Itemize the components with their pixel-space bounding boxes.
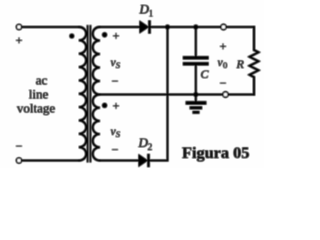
transformer T1 secondary winding (upper half vS) <box>93 27 100 95</box>
svg-text:line: line <box>29 87 49 102</box>
svg-text:C: C <box>201 67 210 81</box>
wire: D1 cathode to top-right corner <box>151 26 255 28</box>
terminal: bottom-left input <box>17 158 22 163</box>
svg-text:1: 1 <box>149 10 154 20</box>
wire: D2 cathode riser up to top rail <box>150 27 168 161</box>
junction node: capacitor joins top rail <box>194 25 199 30</box>
svg-text:−: − <box>112 74 119 88</box>
svg-text:voltage: voltage <box>17 101 55 116</box>
svg-text:+: + <box>113 99 120 113</box>
svg-text:+: + <box>220 39 227 53</box>
svg-text:R: R <box>236 57 245 71</box>
transformer phasing dot (primary) <box>70 34 75 39</box>
svg-text:S: S <box>116 60 121 70</box>
svg-text:−: − <box>112 143 119 157</box>
transformer phasing dot (secondary lower) <box>102 103 107 108</box>
junction node: D2 riser joins top rail <box>165 25 170 30</box>
diode D2 <box>139 155 147 166</box>
wire: bottom-left lead from input terminal to primary winding <box>22 160 80 162</box>
svg-text:−: − <box>16 139 23 153</box>
terminal: output bottom <box>223 92 228 97</box>
diode D1 <box>140 22 148 33</box>
svg-text:+: + <box>16 33 23 47</box>
junction node: capacitor/ground on bottom rail <box>194 92 199 97</box>
svg-text:−: − <box>220 76 227 90</box>
transformer T1 primary winding <box>79 27 86 161</box>
svg-text:0: 0 <box>223 60 227 70</box>
transformer phasing dot (secondary upper) <box>102 32 107 37</box>
terminal: output top <box>221 25 226 30</box>
resistor R <box>250 27 259 95</box>
svg-text:2: 2 <box>148 143 153 153</box>
wire: secondary top lead to diode D1 <box>100 26 140 28</box>
svg-text:ac: ac <box>36 73 48 88</box>
terminal: top-left input <box>17 25 22 30</box>
svg-text:Figura 05: Figura 05 <box>182 143 249 162</box>
wire: top-left lead from input terminal to primary winding <box>22 26 80 28</box>
wire: center tap rail to load bottom <box>100 94 254 96</box>
capacitor C <box>195 27 197 57</box>
ground symbol <box>195 95 197 102</box>
svg-text:S: S <box>116 129 121 139</box>
svg-text:+: + <box>113 29 120 43</box>
transformer T1 secondary winding (lower half vS) <box>93 95 100 161</box>
wire: secondary bottom lead to diode D2 <box>100 160 139 162</box>
transformer core lines <box>87 26 89 162</box>
